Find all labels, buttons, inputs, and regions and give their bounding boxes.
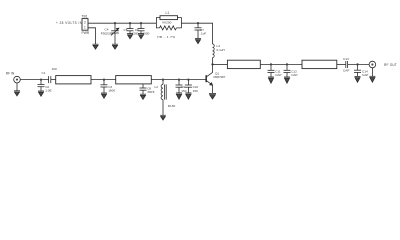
capacitor C12 (shunt) <box>284 64 298 77</box>
ground (C2) <box>38 91 44 96</box>
microstrip TL2 <box>116 76 152 84</box>
ground (TB1 pin1) <box>93 44 99 49</box>
capacitor C9 (shunt) <box>176 80 187 93</box>
wire bias rail from L1 to corner <box>181 23 212 44</box>
capacitor C6 (shunt) <box>135 23 150 35</box>
microstrip TL4 <box>302 60 337 68</box>
wire TL4 to C13 <box>337 63 346 65</box>
node at C2 <box>40 78 42 80</box>
ground (C6) <box>138 34 144 39</box>
ground (C5) <box>127 34 133 39</box>
svg-text:CAP: CAP <box>343 69 349 73</box>
ground (C7) <box>195 39 201 44</box>
capacitor C14 (shunt) <box>354 64 368 77</box>
svg-text:TB1: TB1 <box>82 14 88 18</box>
svg-text:1600: 1600 <box>108 89 115 93</box>
wire TL3 to TL4 <box>260 63 302 65</box>
capacitor C5 (shunt) <box>124 23 139 35</box>
microstrip TL1 <box>56 76 91 84</box>
port RF IN <box>6 71 20 91</box>
svg-text:VK200: VK200 <box>162 21 172 25</box>
ground (RF IN) <box>14 91 20 96</box>
microstrip TL3 <box>227 60 260 68</box>
capacitor C11 (shunt) <box>268 64 282 77</box>
node at C11 <box>270 63 272 65</box>
svg-text:RF IN: RF IN <box>6 71 15 75</box>
svg-text:CAP: CAP <box>291 73 297 77</box>
capacitor C7 (shunt, end of bias rail) <box>195 23 207 38</box>
ground (C9) <box>176 93 182 99</box>
ground (C4) <box>112 44 118 49</box>
svg-text:2: 2 <box>84 20 86 24</box>
node on bias rail at C5 <box>129 22 131 24</box>
node on bias rail at C4 <box>114 22 116 24</box>
wire RF IN to C1 <box>20 79 48 81</box>
svg-text:PWR: PWR <box>82 31 90 35</box>
wire TB1 pin1 to ground <box>88 28 96 44</box>
svg-text:150: 150 <box>181 89 186 93</box>
node at C7 <box>197 22 199 24</box>
svg-text:RF OUT: RF OUT <box>384 63 397 67</box>
node at C9 <box>178 78 180 80</box>
connector TB1 <box>82 14 90 35</box>
svg-text:HB - 1.7%: HB - 1.7% <box>157 35 175 39</box>
wire TL1 to TL2 <box>91 79 116 81</box>
svg-text:CAP: CAP <box>362 73 368 77</box>
svg-text:P50236: P50236 <box>101 31 112 35</box>
svg-text:C13: C13 <box>343 57 349 61</box>
ground (C8) <box>140 94 146 99</box>
ground (C11) <box>268 77 274 83</box>
node collector <box>211 63 213 65</box>
svg-text:150: 150 <box>193 89 198 93</box>
capacitor C4 (variable, shunt) <box>101 23 119 44</box>
wire collector to TL3 <box>213 63 228 65</box>
node on bias rail at C6 <box>140 22 142 24</box>
ground (C3) <box>101 93 107 98</box>
ground (C12) <box>284 77 290 83</box>
ground (C14) <box>355 76 361 82</box>
ground (L2) <box>160 115 166 120</box>
capacitor C8 (shunt under TL2) <box>140 84 155 94</box>
svg-text:.1uF: .1uF <box>200 32 206 36</box>
svg-text:1: 1 <box>84 26 86 30</box>
svg-text:0.1uH: 0.1uH <box>217 48 225 52</box>
wire TL2 to Q1 base <box>151 79 206 81</box>
svg-text:RL50: RL50 <box>168 104 176 108</box>
svg-text:L2: L2 <box>155 85 159 89</box>
node at C10 <box>187 78 189 80</box>
ground (Q1 emitter) <box>209 93 216 99</box>
inductor L2 (shunt with core) <box>155 80 176 116</box>
svg-text:L1: L1 <box>166 11 170 15</box>
svg-text:+ 28 VOLTS IN: + 28 VOLTS IN <box>56 21 83 25</box>
node at C14 <box>356 63 358 65</box>
wire bias rail from TB1 pin2 <box>88 22 156 24</box>
capacitor C2 (shunt) <box>38 80 52 93</box>
svg-text:CAP: CAP <box>275 73 281 77</box>
svg-text:MRF587: MRF587 <box>214 75 226 79</box>
svg-text:39PF: 39PF <box>147 90 155 94</box>
svg-text:1.0E: 1.0E <box>45 88 51 92</box>
transistor Q1 <box>206 64 225 93</box>
capacitor C1 (series) <box>42 67 57 83</box>
node at C12 <box>286 63 288 65</box>
capacitor C13 (series) <box>343 57 369 73</box>
capacitor C10 (shunt) <box>185 80 199 93</box>
choke L1 with parallel resistor R1 (loop) <box>156 11 181 39</box>
node at C3 <box>103 78 105 80</box>
node at L2 <box>162 78 164 80</box>
svg-text:100: 100 <box>52 67 57 71</box>
port RF OUT <box>369 61 397 76</box>
ground (RF OUT) <box>369 76 375 82</box>
inductor L3 (collector feed) <box>213 44 225 64</box>
svg-text:C1: C1 <box>42 71 46 75</box>
ground (C10) <box>185 93 191 99</box>
capacitor C3 (shunt) <box>101 80 116 93</box>
